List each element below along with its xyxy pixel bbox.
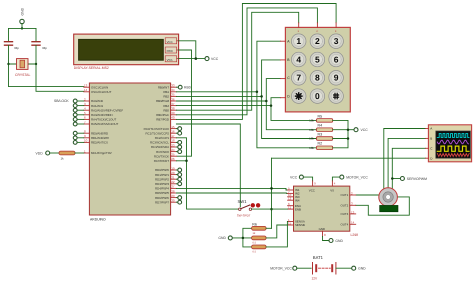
capacitor C1 33p bbox=[5, 42, 20, 50]
svg-text:RD1/PSP1: RD1/PSP1 bbox=[155, 173, 169, 177]
pin OSC1/CLKIN (13) bbox=[84, 84, 108, 90]
keypad button 4 bbox=[291, 52, 306, 67]
svg-text:33p: 33p bbox=[42, 46, 47, 50]
pin RC5/SDO (24) bbox=[156, 148, 176, 154]
svg-text:RB7/PGD: RB7/PGD bbox=[156, 118, 169, 122]
svg-text:RB3/PGM: RB3/PGM bbox=[156, 99, 170, 103]
wire OUT2 to motor wrap bbox=[356, 197, 410, 215]
resistor R6 1k bbox=[252, 222, 267, 235]
svg-text:RC6/TX/CK: RC6/TX/CK bbox=[154, 154, 169, 158]
pin RD3/PSP3 (22) bbox=[155, 180, 176, 186]
svg-text:RD6/PSP6: RD6/PSP6 bbox=[155, 196, 169, 200]
terminal VCC L298 bbox=[290, 175, 303, 179]
crystal X1 bbox=[9, 59, 37, 77]
wire RB3 to row C / R4 bbox=[176, 79, 316, 130]
svg-text:10k: 10k bbox=[309, 119, 314, 123]
terminal RD0 bbox=[176, 168, 181, 172]
wire R1 to MCLR bbox=[75, 152, 84, 154]
svg-text:24: 24 bbox=[171, 148, 175, 152]
switch SW1 SW-SPDT bbox=[237, 199, 261, 217]
pin RB4 (37) bbox=[163, 102, 176, 108]
waveform channel D (red) bbox=[437, 154, 469, 157]
waveform channel B (purple sine) bbox=[437, 140, 468, 144]
resistor R4 10k bbox=[309, 124, 333, 132]
pin RB1 (34) bbox=[163, 88, 176, 94]
keypad button 2 bbox=[310, 34, 325, 49]
wire RB4 to row D / R5 bbox=[176, 98, 316, 121]
svg-text:22: 22 bbox=[171, 180, 175, 184]
LCD pin RXD bbox=[165, 47, 178, 53]
svg-text:SENSB: SENSB bbox=[295, 223, 305, 227]
terminal RE2 input bbox=[73, 141, 84, 145]
svg-text:13: 13 bbox=[84, 84, 88, 88]
wire R7 to SENSB bbox=[266, 225, 288, 238]
wire RC2/RC7 to SW1 line bbox=[176, 138, 238, 209]
svg-text:RC1/T1OSI/CCP2: RC1/T1OSI/CCP2 bbox=[146, 131, 170, 135]
pin RC6/TX/CK (25) bbox=[154, 153, 177, 159]
node RC7 junction bbox=[185, 160, 188, 163]
svg-text:33p: 33p bbox=[14, 46, 19, 50]
pin RD5/PSP5 (28) bbox=[155, 189, 176, 195]
pin RE1/AN6/WR (9) bbox=[84, 134, 109, 140]
terminal VCC near LCD bbox=[205, 57, 219, 62]
svg-text:SERVOPWM: SERVOPWM bbox=[407, 177, 427, 181]
wire left cap to osc1 bbox=[9, 46, 84, 87]
pin RD1/PSP1 (20) bbox=[155, 171, 176, 177]
node RB4 junction bbox=[270, 104, 273, 107]
svg-text:RB2: RB2 bbox=[163, 95, 169, 99]
svg-text:RB0: RB0 bbox=[184, 86, 191, 90]
svg-text:26: 26 bbox=[171, 157, 175, 161]
node crystal left bbox=[7, 63, 9, 65]
wire right cap to osc2 bbox=[36, 46, 84, 92]
terminal RE0 input bbox=[73, 131, 84, 135]
pin L298 OUT4 (14) bbox=[340, 221, 355, 227]
svg-text:R5: R5 bbox=[318, 114, 323, 118]
svg-text:MCLR/Vpp/THV: MCLR/Vpp/THV bbox=[91, 151, 112, 155]
svg-text:38: 38 bbox=[171, 107, 175, 111]
svg-text:GND: GND bbox=[218, 236, 226, 240]
pin RC3/SCK/SCL (18) bbox=[150, 139, 176, 145]
keypad column pin 1 bbox=[298, 23, 300, 33]
svg-text:15: 15 bbox=[288, 221, 292, 225]
pin RA0/AN0 (2) bbox=[84, 97, 104, 103]
wire VDD to R1 bbox=[50, 152, 59, 154]
svg-text:GND: GND bbox=[21, 7, 25, 15]
LCD pin VSS bbox=[165, 56, 178, 62]
node crystal right bbox=[35, 63, 37, 65]
svg-text:10k: 10k bbox=[309, 146, 314, 150]
LCD display module bbox=[74, 34, 179, 70]
scope pin B bbox=[426, 137, 433, 141]
pin RB5 (38) bbox=[163, 107, 176, 113]
terminal MOTOR_VCC L298 bbox=[340, 175, 369, 179]
waveform channel A (cyan square) bbox=[437, 134, 469, 138]
op microcontroller U1 ARDUINO body bbox=[89, 83, 170, 222]
wire LCD RXD to RC6 bbox=[177, 50, 192, 156]
node RB3 junction bbox=[265, 100, 268, 103]
pin RA5/AN4/SS/C2OUT (7) bbox=[84, 120, 119, 126]
resistor R8 0.5 bbox=[252, 245, 267, 254]
svg-text:ENB: ENB bbox=[295, 207, 301, 211]
svg-text:14: 14 bbox=[351, 221, 355, 225]
svg-text:20: 20 bbox=[171, 171, 175, 175]
pin L298 ENB (11) bbox=[288, 206, 301, 212]
pin L298 GND (8) bbox=[319, 227, 326, 237]
terminal RA2 input bbox=[73, 108, 84, 112]
wire GND to R6 bus bbox=[232, 228, 251, 247]
terminal RB0 bbox=[176, 85, 190, 89]
terminal RA4 input bbox=[73, 118, 84, 122]
pin RB7/PGD (40) bbox=[156, 116, 176, 122]
svg-text:RD4/PSP4: RD4/PSP4 bbox=[155, 187, 169, 191]
keypad column pin 2 bbox=[316, 23, 318, 33]
terminal RD6 bbox=[176, 196, 181, 200]
terminal RC0 bbox=[176, 127, 181, 131]
wire R6a to SW net bbox=[266, 227, 271, 229]
wire LCD VSS to VCC terminal bbox=[179, 58, 205, 60]
pin RC0/T1OSO/T1CKI (15) bbox=[144, 125, 177, 131]
pin L298 OUT3 (13) bbox=[340, 210, 355, 216]
terminal GND R6 bbox=[218, 236, 232, 240]
svg-text:R2: R2 bbox=[318, 142, 323, 146]
svg-text:VCC: VCC bbox=[309, 188, 315, 192]
pin L298 SENSB (15) bbox=[288, 221, 305, 227]
svg-text:RA4/T0CKI/C1OUT: RA4/T0CKI/C1OUT bbox=[91, 118, 116, 122]
svg-text:37: 37 bbox=[171, 102, 175, 106]
keypad button 1 bbox=[291, 34, 306, 49]
svg-text:28: 28 bbox=[171, 189, 175, 193]
wire RB6 to column 2 bbox=[176, 8, 317, 115]
node bus R4 bbox=[347, 128, 350, 131]
pin L298 SENSA (1) bbox=[288, 218, 305, 224]
svg-text:4: 4 bbox=[296, 54, 301, 64]
pin RC4/SDI/SDA (23) bbox=[151, 143, 177, 149]
capacitor C2 33p bbox=[32, 42, 47, 50]
wire scope ch D bbox=[272, 157, 426, 159]
node ch A tap bbox=[383, 194, 386, 197]
node IN1 junction bbox=[270, 187, 273, 190]
svg-text:RA1/AN1: RA1/AN1 bbox=[91, 104, 103, 108]
svg-text:1k: 1k bbox=[61, 157, 65, 161]
pin RA4/T0CKI/C1OUT (6) bbox=[84, 116, 117, 122]
svg-text:IN4: IN4 bbox=[295, 198, 300, 202]
svg-text:RB4: RB4 bbox=[163, 104, 169, 108]
node SW net at ENB bbox=[270, 208, 273, 211]
svg-text:1k: 1k bbox=[253, 232, 256, 235]
svg-text:RB6/PGC: RB6/PGC bbox=[156, 113, 169, 117]
svg-text:RA5/AN4/SS/C2OUT: RA5/AN4/SS/C2OUT bbox=[91, 122, 119, 126]
svg-text:18: 18 bbox=[171, 139, 175, 143]
svg-text:RD5/PSP5: RD5/PSP5 bbox=[155, 191, 169, 195]
pin RB0/INT (33) bbox=[158, 84, 176, 90]
wire R8 to SENSA bbox=[266, 222, 288, 247]
svg-text:0.5: 0.5 bbox=[253, 251, 257, 254]
pin RB3/PGM (36) bbox=[156, 97, 176, 103]
svg-text:RC4/SDI/SDA: RC4/SDI/SDA bbox=[151, 145, 169, 149]
svg-text:11: 11 bbox=[288, 206, 291, 210]
node cap-top junction bbox=[21, 27, 23, 29]
svg-text:6: 6 bbox=[334, 54, 339, 64]
svg-text:1: 1 bbox=[296, 36, 301, 46]
wire SW net vertical bbox=[271, 158, 273, 228]
pin L298 VS (4) bbox=[330, 181, 336, 192]
pin RB2 (35) bbox=[163, 93, 176, 99]
terminal RE1 input bbox=[73, 136, 84, 140]
keypad row pin C bbox=[280, 76, 290, 80]
pin L298 IN4 (12) bbox=[288, 197, 300, 203]
terminal VDD bbox=[36, 151, 50, 155]
svg-text:8: 8 bbox=[315, 73, 320, 83]
pin RD7/PSP7 (30) bbox=[155, 199, 176, 205]
svg-text:27: 27 bbox=[171, 185, 175, 189]
node bus R3 bbox=[347, 137, 350, 140]
svg-text:RA0/AN0: RA0/AN0 bbox=[91, 99, 103, 103]
pin OSC2/CLKOUT (14) bbox=[84, 88, 112, 94]
resistor R7 0.5 bbox=[252, 236, 267, 245]
svg-text:10k: 10k bbox=[309, 128, 314, 132]
pin RA1/AN1 (3) bbox=[84, 102, 104, 108]
pin RC7/RX/DT (26) bbox=[154, 157, 177, 163]
svg-text:39: 39 bbox=[171, 111, 175, 115]
terminal GND L298 bbox=[323, 237, 344, 243]
svg-text:21: 21 bbox=[171, 176, 175, 180]
wire RD4 to IN1 bbox=[176, 188, 287, 190]
svg-text:35: 35 bbox=[171, 93, 175, 97]
node SW net at IN1 bbox=[270, 187, 273, 190]
keypad row pin A bbox=[280, 40, 290, 44]
wire scope ch C bbox=[392, 148, 425, 190]
battery BAT1 12V bbox=[297, 255, 352, 281]
wire RB5 to column 1 bbox=[176, 12, 298, 110]
pin L298 VCC (9) bbox=[309, 181, 316, 192]
oscilloscope body bbox=[428, 125, 471, 162]
pin RD6/PSP6 (29) bbox=[155, 194, 176, 200]
wire R5-R2 to VCC bus bbox=[333, 120, 354, 147]
wire RB7 to column 3 bbox=[176, 4, 336, 120]
svg-text:SW1: SW1 bbox=[238, 199, 248, 204]
svg-text:17: 17 bbox=[171, 134, 175, 138]
svg-text:13: 13 bbox=[351, 210, 355, 214]
terminal RC1 bbox=[176, 131, 181, 135]
svg-text:9: 9 bbox=[314, 182, 316, 186]
svg-text:R3: R3 bbox=[318, 132, 323, 136]
svg-text:36: 36 bbox=[171, 97, 175, 101]
keypad row pin D bbox=[280, 94, 290, 98]
svg-text:OSC1/CLKIN: OSC1/CLKIN bbox=[91, 85, 108, 89]
svg-text:40: 40 bbox=[171, 116, 175, 120]
scope pin D bbox=[426, 156, 434, 160]
svg-text:CRYSTAL: CRYSTAL bbox=[15, 73, 30, 77]
keypad button 0 bbox=[310, 89, 325, 104]
svg-text:RC2/CCP1: RC2/CCP1 bbox=[155, 136, 170, 140]
svg-text:MOTOR_VCC: MOTOR_VCC bbox=[270, 266, 292, 270]
svg-text:RD2/PSP2: RD2/PSP2 bbox=[155, 177, 169, 181]
pin L298 IN3 (10) bbox=[288, 193, 300, 199]
svg-text:25: 25 bbox=[171, 153, 175, 157]
terminal RA5 input bbox=[73, 122, 84, 126]
svg-text:RB5: RB5 bbox=[163, 108, 169, 112]
pin RD0/PSP0 (19) bbox=[155, 166, 176, 172]
terminal RC5 bbox=[176, 150, 181, 154]
svg-text:RC0/T1OSO/T1CKI: RC0/T1OSO/T1CKI bbox=[144, 127, 170, 131]
resistor R2 10k bbox=[309, 142, 333, 150]
keypad button # bbox=[329, 89, 344, 104]
wire SW1 throw to ENB bbox=[252, 208, 288, 210]
terminal VCC pull-ups bbox=[354, 128, 368, 132]
pin MCLR/Vpp/THV (1) bbox=[84, 149, 112, 155]
svg-text:RB0/INT: RB0/INT bbox=[158, 85, 169, 89]
terminal RC3 bbox=[176, 141, 181, 145]
svg-text:VCC: VCC bbox=[290, 175, 298, 179]
svg-text:GND: GND bbox=[335, 239, 343, 243]
terminal RD7 bbox=[176, 200, 181, 204]
svg-text:R6: R6 bbox=[252, 222, 257, 226]
resistor R5 10k bbox=[309, 114, 333, 122]
svg-text:DISPLAY-SERIAL-MS2: DISPLAY-SERIAL-MS2 bbox=[74, 66, 109, 70]
svg-text:VS: VS bbox=[330, 188, 334, 192]
node R6 bus gnd bbox=[242, 237, 245, 240]
pin L298 OUT2 (3) bbox=[340, 202, 355, 208]
svg-text:4: 4 bbox=[334, 182, 336, 186]
svg-text:VSS: VSS bbox=[167, 58, 173, 62]
svg-text:0: 0 bbox=[315, 91, 320, 101]
svg-text:RD0/PSP0: RD0/PSP0 bbox=[155, 168, 169, 172]
terminal RD2 bbox=[176, 177, 181, 181]
svg-text:12: 12 bbox=[288, 197, 292, 201]
pin L298 IN2 (7) bbox=[288, 190, 300, 196]
pin RD4/PSP4 (27) bbox=[155, 185, 176, 191]
keypad column pin 3 bbox=[335, 23, 337, 33]
svg-text:OUT4: OUT4 bbox=[340, 223, 348, 227]
svg-text:RC3/SCK/SCL: RC3/SCK/SCL bbox=[150, 141, 169, 145]
svg-text:9: 9 bbox=[334, 73, 339, 83]
svg-text:MOTOR_VCC: MOTOR_VCC bbox=[346, 175, 368, 179]
terminal GND battery bbox=[352, 266, 366, 270]
svg-text:VCC: VCC bbox=[361, 128, 369, 132]
terminal MOTOR_VCC battery bbox=[270, 266, 297, 270]
svg-text:VDD: VDD bbox=[36, 151, 44, 155]
wire cap top rail bbox=[9, 27, 37, 29]
svg-text:30: 30 bbox=[171, 199, 175, 203]
svg-text:OUT1: OUT1 bbox=[340, 193, 348, 197]
pin L298 IN1 (5) bbox=[288, 186, 300, 192]
svg-text:VCC: VCC bbox=[211, 57, 219, 61]
keypad button * bbox=[291, 89, 306, 104]
resistor R3 10k bbox=[309, 132, 333, 140]
pin L298 ENA (6) bbox=[288, 202, 301, 208]
keypad button 3 bbox=[329, 34, 344, 49]
svg-text:23: 23 bbox=[171, 143, 175, 147]
svg-text:SB/LOCK: SB/LOCK bbox=[54, 99, 69, 103]
svg-text:12V: 12V bbox=[312, 277, 319, 281]
wire scope ch A bbox=[384, 129, 426, 196]
pin RD2/PSP2 (21) bbox=[155, 176, 176, 182]
svg-text:RC5/SDO: RC5/SDO bbox=[156, 150, 170, 154]
svg-text:10: 10 bbox=[84, 139, 88, 143]
svg-text:R4: R4 bbox=[318, 124, 323, 128]
motor driver U2 L298 body bbox=[294, 186, 359, 237]
terminal RA3 input bbox=[73, 113, 84, 117]
svg-text:15: 15 bbox=[171, 125, 175, 129]
pin RE0/AN5/RD (8) bbox=[84, 130, 108, 136]
svg-text:RE0/AN5/RD: RE0/AN5/RD bbox=[91, 131, 108, 135]
waveform channel C (yellow square) bbox=[437, 146, 469, 151]
svg-text:RA2/AN2/VREF-/CVREF: RA2/AN2/VREF-/CVREF bbox=[91, 108, 123, 112]
svg-text:14: 14 bbox=[84, 88, 88, 92]
svg-text:L298: L298 bbox=[351, 233, 359, 237]
pin RA2/AN2/VREF-/CVREF (4) bbox=[84, 107, 124, 113]
scope pin A bbox=[426, 127, 433, 131]
svg-text:GND: GND bbox=[358, 266, 366, 270]
svg-text:A: A bbox=[430, 127, 432, 131]
svg-text:OUT2: OUT2 bbox=[340, 204, 348, 208]
svg-text:16: 16 bbox=[171, 130, 175, 134]
svg-text:SW-SPDT: SW-SPDT bbox=[237, 213, 251, 217]
node VSS junction bbox=[195, 57, 198, 60]
keypad row pin B bbox=[280, 58, 290, 62]
node RB1 junction bbox=[256, 91, 259, 94]
svg-text:RA3/AN3/VREF+: RA3/AN3/VREF+ bbox=[91, 113, 114, 117]
terminal RD3 bbox=[176, 182, 181, 186]
wire MOTOR_VCC to VS bbox=[332, 177, 339, 181]
ground terminal bbox=[20, 19, 24, 23]
terminal RD1 bbox=[176, 173, 181, 177]
wire scope ch B bbox=[388, 138, 426, 188]
terminal RC4 bbox=[176, 145, 181, 149]
wire LCD VCC jog bbox=[179, 41, 196, 59]
svg-text:7: 7 bbox=[296, 73, 301, 83]
node RB2 junction bbox=[260, 95, 263, 98]
LCD pin VCC bbox=[165, 38, 178, 44]
terminal SERVOPWM bbox=[392, 177, 427, 181]
pin RC1/T1OSI/CCP2 (16) bbox=[146, 130, 177, 136]
svg-text:ARDUINO: ARDUINO bbox=[90, 218, 106, 222]
svg-text:OSC2/CLKOUT: OSC2/CLKOUT bbox=[91, 90, 112, 94]
keypad button 5 bbox=[310, 52, 325, 67]
svg-text:RE1/AN6/WR: RE1/AN6/WR bbox=[91, 136, 109, 140]
svg-text:VCC: VCC bbox=[167, 40, 173, 44]
svg-text:3: 3 bbox=[334, 36, 339, 46]
keypad button 7 bbox=[291, 71, 306, 86]
svg-text:B: B bbox=[430, 137, 432, 141]
keypad KP1 body bbox=[285, 27, 350, 112]
wire RB2 to row B / R3 bbox=[176, 60, 316, 139]
svg-text:RE2/AN7/CS: RE2/AN7/CS bbox=[91, 141, 108, 145]
scope pin C bbox=[426, 147, 434, 151]
wire to SW1 pole bbox=[176, 124, 240, 207]
svg-text:RC7/RX/DT: RC7/RX/DT bbox=[154, 159, 169, 163]
wire RD5 to IN2 bbox=[176, 192, 287, 194]
wire right cap drop bbox=[35, 28, 37, 41]
svg-text:OUT3: OUT3 bbox=[340, 212, 348, 216]
svg-text:BAT1: BAT1 bbox=[313, 255, 324, 260]
pin RB6/PGC (39) bbox=[156, 111, 176, 117]
svg-text:19: 19 bbox=[171, 166, 175, 170]
terminal RA1 input bbox=[73, 104, 84, 108]
wire OUT1 to motor bbox=[356, 194, 379, 196]
svg-text:10k: 10k bbox=[309, 137, 314, 141]
pin RE2/AN7/CS (10) bbox=[84, 139, 108, 145]
svg-text:8: 8 bbox=[324, 233, 326, 237]
svg-text:33: 33 bbox=[171, 84, 175, 88]
svg-text:RXD: RXD bbox=[167, 49, 173, 53]
keypad button 9 bbox=[329, 71, 344, 86]
node servo tap bbox=[391, 177, 394, 180]
keypad button 8 bbox=[310, 71, 325, 86]
svg-text:GND: GND bbox=[319, 227, 325, 231]
resistor R1 1k bbox=[59, 151, 75, 160]
